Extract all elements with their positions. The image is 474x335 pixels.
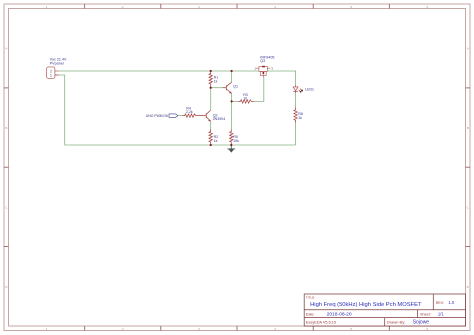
- svg-text:1: 1: [46, 5, 48, 9]
- wire R3 to Q3 gate: [254, 78, 264, 102]
- wire ground bottom rail from connector pin 1: [55, 75, 296, 145]
- svg-text:1k: 1k: [214, 80, 218, 84]
- svg-text:1: 1: [50, 74, 52, 78]
- resistor R2: [209, 129, 212, 145]
- svg-text:Date:: Date:: [306, 313, 315, 317]
- wire LED1 cathode to R6: [295, 93, 297, 107]
- connector P1 pin numbers 2 and 1: [50, 69, 52, 77]
- title block: [304, 294, 465, 326]
- resistor R4: [182, 114, 198, 117]
- MOSFET Q3 pin number 2: [263, 72, 265, 74]
- wire R6 to bottom rail: [295, 123, 297, 145]
- junction top rail / Q1 collector: [231, 70, 233, 72]
- svg-text:10: 10: [243, 97, 247, 101]
- svg-text:3: 3: [198, 327, 200, 331]
- wire node B to R3: [232, 100, 238, 102]
- resistor R5: [230, 129, 233, 145]
- resistor R1: [209, 71, 212, 88]
- svg-text:3: 3: [198, 5, 200, 9]
- ground: [227, 145, 235, 149]
- svg-text:TITLE:: TITLE:: [306, 295, 315, 299]
- wire net flag to R4: [178, 115, 182, 117]
- wire node A to Q1 base: [211, 87, 223, 89]
- resistor R3: [238, 100, 254, 103]
- svg-text:LED1: LED1: [305, 87, 314, 91]
- svg-text:PVpanel: PVpanel: [50, 61, 64, 65]
- resistor R6: [294, 107, 297, 123]
- LED LED1: [293, 85, 302, 93]
- svg-text:2: 2: [122, 327, 124, 331]
- svg-text:4: 4: [274, 327, 276, 331]
- svg-text:1k: 1k: [298, 116, 302, 120]
- net flag UNO PWM D6: [169, 114, 178, 117]
- svg-text:EasyEDA V5.6.15: EasyEDA V5.6.15: [306, 320, 336, 324]
- svg-text:Drawn By:: Drawn By:: [387, 319, 405, 324]
- wire Q3 drain to LED1 anode branch: [267, 71, 295, 85]
- svg-text:Sheet:: Sheet:: [420, 313, 431, 317]
- svg-text:B: B: [5, 126, 7, 130]
- svg-text:High Freq (50kHz) High Side Pc: High Freq (50kHz) High Side Pch MOSFET: [310, 302, 422, 308]
- wire Q1 collector to top rail: [231, 71, 233, 82]
- wire Vcc top rail from connector pin 2 to Q3 source: [59, 70, 259, 72]
- svg-text:1/1: 1/1: [438, 312, 444, 317]
- svg-text:Q3: Q3: [260, 59, 265, 63]
- svg-text:10k: 10k: [233, 139, 239, 143]
- svg-text:Q1: Q1: [233, 85, 238, 89]
- junction node B Q1 emitter / R3 / R5: [231, 100, 233, 102]
- transistor Q1: [223, 82, 232, 93]
- connector P1 PVpanel: [47, 67, 59, 78]
- wire Q1 emitter to node B: [231, 93, 233, 101]
- transistor Q2: [198, 110, 211, 121]
- junction bottom rail / R2: [210, 144, 212, 146]
- svg-text:6: 6: [427, 327, 429, 331]
- svg-text:5: 5: [350, 327, 352, 331]
- svg-text:5: 5: [350, 5, 352, 9]
- svg-text:1.0: 1.0: [448, 300, 454, 305]
- wire node A down to Q2 collector: [210, 88, 212, 110]
- junction node A R1 / Q1 base / Q2 collector: [210, 87, 212, 89]
- junction node A top rail / R1: [210, 70, 212, 72]
- svg-text:1: 1: [46, 327, 48, 331]
- svg-text:2N3904: 2N3904: [213, 117, 226, 121]
- wire node B down to R5: [230, 101, 232, 129]
- svg-text:4: 4: [274, 5, 276, 9]
- wire Q2 emitter to R2: [210, 121, 212, 129]
- MOSFET Q3 package outline: [256, 66, 270, 77]
- svg-text:REV:: REV:: [436, 301, 444, 305]
- svg-text:2: 2: [122, 5, 124, 9]
- svg-text:UNO PWM D6: UNO PWM D6: [146, 114, 168, 118]
- svg-text:B: B: [467, 126, 469, 130]
- svg-text:Sojowe: Sojowe: [413, 319, 430, 325]
- junction bottom rail / R5 / ground: [230, 144, 232, 146]
- svg-text:2018-08-20: 2018-08-20: [327, 312, 352, 318]
- svg-text:2.2k: 2.2k: [186, 110, 193, 114]
- MOSFET Q3 pin numbers 1 and 3: [254, 66, 273, 70]
- svg-text:6: 6: [427, 5, 429, 9]
- svg-text:1k: 1k: [214, 139, 218, 143]
